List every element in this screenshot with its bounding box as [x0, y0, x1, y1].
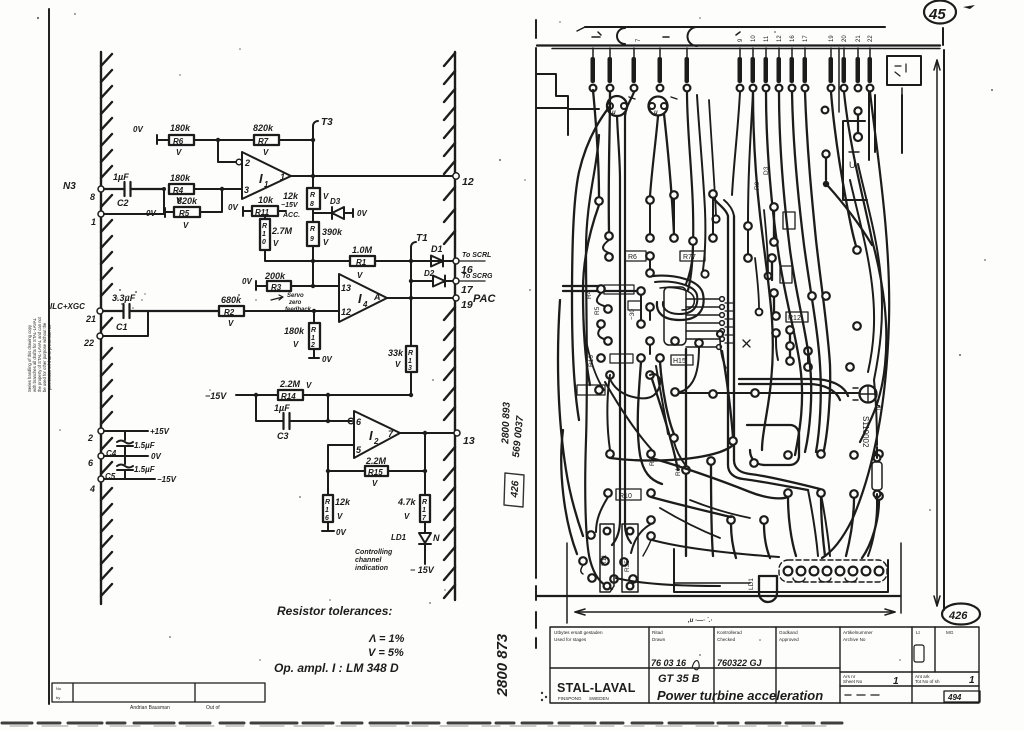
- svg-text:Sheet No: Sheet No: [843, 679, 863, 684]
- wire I1 output to node 12: [291, 175, 455, 177]
- I4 output to node 19: [387, 297, 455, 299]
- svg-text:Godkand: Godkand: [779, 630, 798, 635]
- bottom scan artifact band: [2, 722, 842, 725]
- pads field right: [744, 203, 861, 371]
- wire trace: [697, 95, 705, 270]
- svg-text:Checked: Checked: [717, 637, 736, 642]
- resistor R5: [174, 196, 200, 230]
- big loop trace inner: [655, 282, 697, 314]
- wire R4 to pin3: [194, 188, 242, 190]
- svg-text:C1: C1: [116, 322, 128, 332]
- svg-text:H15: H15: [673, 358, 686, 365]
- svg-text:200k: 200k: [264, 271, 286, 281]
- big loop trace outer: [653, 276, 704, 320]
- op-amp I1: [242, 152, 291, 199]
- svg-text:permission o.f that to prevent: permission o.f that to prevention 19: [47, 324, 52, 390]
- label R6: [625, 251, 646, 261]
- wire trace: [686, 244, 693, 284]
- ground rail right (hatched): [444, 52, 455, 600]
- svg-text:V: V: [395, 360, 401, 369]
- trace to right resistor: [874, 380, 877, 445]
- trace bar5 to hook: [687, 92, 693, 290]
- svg-text:4: 4: [89, 484, 95, 494]
- svg-text:Tot No of sh: Tot No of sh: [915, 679, 940, 684]
- faint rotated numbers above: [500, 401, 526, 458]
- svg-text:1.5µF: 1.5µF: [134, 465, 156, 474]
- pot feed trace: [679, 392, 858, 394]
- svg-text:R9: R9: [754, 181, 761, 190]
- component bar lead stubs: [593, 48, 870, 57]
- op-amp I4: [339, 274, 387, 322]
- dots left of title block: [541, 692, 543, 694]
- svg-text:390k: 390k: [322, 227, 343, 237]
- circled 426: [942, 604, 980, 625]
- wire to op-amp pin2: [218, 140, 236, 162]
- svg-text:760322 GJ: 760322 GJ: [717, 658, 763, 668]
- svg-text:zero: zero: [288, 300, 302, 306]
- svg-text:3.3µF: 3.3µF: [112, 293, 136, 303]
- svg-text:9: 9: [738, 38, 744, 42]
- I2 output to node 13: [400, 432, 455, 434]
- svg-text:channel: channel: [355, 557, 383, 564]
- svg-text:0V: 0V: [228, 203, 238, 212]
- svg-text:S110002: S110002: [861, 416, 870, 448]
- trace from Q2 down: [650, 116, 658, 196]
- svg-text:Λ = 1%: Λ = 1%: [368, 633, 405, 645]
- wire trace: [808, 489, 830, 556]
- resistor R9: [307, 222, 343, 247]
- wire R2 to pin 12: [244, 310, 339, 312]
- svg-text:1: 1: [91, 217, 96, 227]
- strip separator line: [838, 48, 840, 112]
- wire pad pair right: [822, 150, 829, 157]
- highway traces right: [766, 92, 802, 455]
- svg-text:I: I: [358, 291, 362, 306]
- svg-text:R7: R7: [258, 137, 269, 146]
- strip pin numbers: [636, 35, 874, 42]
- node junction: [216, 138, 220, 142]
- svg-text:1: 1: [969, 675, 975, 686]
- diode D3: [313, 207, 353, 219]
- isolated vertical lines right: [869, 92, 902, 160]
- svg-text:Kontrollerad: Kontrollerad: [717, 630, 742, 635]
- svg-text:R: R: [422, 499, 427, 506]
- svg-text:R4: R4: [173, 186, 184, 195]
- svg-text:feedback: feedback: [285, 307, 312, 313]
- svg-text:2800 873: 2800 873: [494, 633, 511, 697]
- svg-text:2: 2: [373, 437, 379, 446]
- horizontal double trace: [563, 286, 636, 291]
- svg-text:Controlling: Controlling: [355, 549, 393, 556]
- svg-text:45: 45: [928, 6, 946, 23]
- svg-text:426: 426: [509, 480, 521, 499]
- svg-text:19: 19: [829, 35, 835, 42]
- resistor R7: [253, 123, 279, 157]
- svg-text:8: 8: [90, 192, 95, 202]
- svg-text:R3: R3: [271, 283, 282, 292]
- twin vertical traces mid: [713, 198, 808, 490]
- small x mark: [743, 340, 750, 347]
- svg-text:D3: D3: [330, 197, 341, 206]
- svg-text:+15V: +15V: [150, 427, 170, 436]
- wire trace: [755, 258, 759, 308]
- svg-text:N3: N3: [63, 181, 76, 192]
- resistor R3: [264, 271, 291, 292]
- svg-text:2: 2: [244, 158, 250, 168]
- R11 tall component: [600, 524, 614, 592]
- svg-text:V: V: [176, 148, 182, 157]
- wire R5 up to input: [200, 189, 222, 212]
- horizontal bus pair to right bundle: [739, 379, 848, 396]
- svg-text:22: 22: [868, 35, 874, 42]
- svg-text:R: R: [310, 192, 315, 199]
- svg-text:1: 1: [262, 231, 266, 238]
- svg-text:V: V: [306, 381, 312, 390]
- svg-text:R6: R6: [628, 254, 637, 261]
- svg-text:Archive No: Archive No: [843, 637, 866, 642]
- svg-text:1: 1: [422, 507, 426, 514]
- left board edge trace: [585, 135, 612, 589]
- left board step outline: [537, 74, 599, 135]
- terminal T3: [313, 121, 318, 140]
- wire trace: [850, 180, 874, 372]
- svg-text:33k: 33k: [388, 348, 404, 358]
- pad: [853, 246, 861, 254]
- lower wavy traces: [610, 445, 733, 460]
- wire trace: [764, 210, 768, 272]
- svg-text:To SCRG: To SCRG: [462, 273, 493, 280]
- svg-text:180k: 180k: [170, 173, 191, 183]
- svg-text:2: 2: [310, 342, 315, 349]
- svg-text:R: R: [262, 223, 267, 230]
- svg-text:12k: 12k: [335, 497, 351, 507]
- trace from box down: [901, 88, 903, 95]
- IC second pad column: [725, 303, 734, 343]
- capacitor C2: [104, 182, 164, 196]
- svg-text:R12: R12: [788, 315, 801, 322]
- svg-text:1.5µF: 1.5µF: [134, 441, 156, 450]
- svg-text:20: 20: [842, 35, 848, 42]
- svg-text:17: 17: [803, 35, 809, 42]
- bottom right number box: [845, 694, 879, 696]
- bottom connector circles: [784, 567, 884, 576]
- node 19: [453, 295, 459, 301]
- svg-text:1.0M: 1.0M: [352, 245, 373, 255]
- svg-text:3: 3: [244, 185, 249, 195]
- pad: [701, 270, 708, 277]
- LD1 D-shape: [759, 576, 777, 602]
- svg-text:2.7M: 2.7M: [271, 226, 293, 236]
- svg-text:1: 1: [408, 358, 412, 365]
- svg-text:13: 13: [341, 283, 351, 293]
- rotated small labels: [586, 166, 770, 476]
- svg-text:1: 1: [280, 172, 285, 182]
- svg-text:76 03 16: 76 03 16: [651, 658, 687, 668]
- svg-text:R16: R16: [588, 355, 595, 367]
- pad: [765, 273, 772, 280]
- svg-text:FINSPONG SWEDEN: FINSPONG SWEDEN: [558, 696, 609, 701]
- transistor Q1 outline: [607, 96, 627, 116]
- wire trace: [831, 92, 856, 246]
- 0V terminal top: [157, 135, 169, 144]
- resistor R12: [284, 323, 320, 349]
- label H15: [671, 355, 693, 365]
- resistor R6: [169, 123, 194, 157]
- node 1 bypass wire: [98, 211, 104, 217]
- svg-text:D3: D3: [763, 166, 770, 175]
- svg-text:Ritad: Ritad: [652, 630, 663, 635]
- svg-text:6: 6: [88, 458, 94, 468]
- svg-text:R14: R14: [281, 392, 296, 401]
- svg-text:,u ·—· ´.·: ,u ·—· ´.·: [687, 618, 712, 624]
- svg-text:Used for stages: Used for stages: [554, 637, 587, 642]
- svg-text:21: 21: [856, 35, 862, 42]
- component bracket C-outline right: [843, 121, 867, 200]
- wire trace: [709, 100, 716, 215]
- wire trace: [685, 349, 687, 466]
- svg-text:0V: 0V: [151, 452, 161, 461]
- svg-text:2.2M: 2.2M: [279, 379, 301, 389]
- LED LD1: [419, 533, 431, 564]
- svg-text:T3: T3: [321, 117, 333, 128]
- node 22 bypass: [97, 333, 103, 339]
- right small resistor component: [872, 462, 882, 490]
- svg-text:10: 10: [751, 35, 757, 42]
- svg-text:R: R: [325, 499, 330, 506]
- svg-text:V: V: [372, 479, 378, 488]
- ground rail left (hatched): [101, 52, 112, 604]
- resistor R4: [169, 173, 194, 205]
- svg-text:Approved: Approved: [779, 637, 799, 642]
- svg-text:No: No: [56, 686, 62, 691]
- potentiometer: [860, 386, 877, 403]
- PCB top edge line: [585, 26, 885, 28]
- svg-text:10k: 10k: [258, 195, 274, 205]
- svg-text:R2: R2: [224, 308, 235, 317]
- svg-text:R: R: [408, 350, 413, 357]
- capacitor C3: [256, 395, 352, 421]
- svg-text:V: V: [404, 512, 410, 521]
- svg-text:7: 7: [636, 38, 642, 42]
- extra drop traces top: [609, 92, 610, 232]
- svg-text:426: 426: [948, 610, 968, 622]
- svg-text:3: 3: [408, 365, 412, 372]
- small component rects right: [783, 212, 795, 229]
- svg-text:V: V: [228, 319, 234, 328]
- svg-text:1µF: 1µF: [274, 403, 290, 413]
- svg-text:R77: R77: [683, 254, 696, 261]
- wire trace: [690, 500, 750, 518]
- vertical wire component inside bracket: [857, 114, 859, 134]
- bottom right loop trace: [747, 425, 799, 465]
- capacitor C4: [124, 431, 126, 456]
- component outline box top right: [887, 56, 921, 85]
- bottom connector dashed outline: [779, 560, 887, 582]
- svg-text:1µF: 1µF: [113, 172, 129, 182]
- svg-text:12: 12: [777, 35, 783, 42]
- svg-text:C2: C2: [117, 198, 129, 208]
- fold line left of PCB: [535, 20, 537, 648]
- pad: [822, 107, 829, 114]
- svg-text:PAC: PAC: [473, 293, 496, 305]
- resistor R15 feedback: [328, 433, 425, 471]
- circled A5 stamp: [924, 1, 956, 24]
- trace hook to pads: [583, 205, 599, 385]
- svg-text:−15V: −15V: [157, 475, 177, 484]
- wire R6 to R7: [194, 139, 254, 141]
- svg-text:V: V: [357, 271, 363, 280]
- svg-text:R5: R5: [179, 209, 190, 218]
- diode D1: [431, 256, 453, 267]
- resistor R17: [424, 471, 426, 533]
- diagonal wire: [828, 186, 872, 245]
- dimension extension lines: [567, 543, 901, 623]
- svg-text:V: V: [183, 221, 189, 230]
- left margin fine print (rotated): [27, 316, 52, 392]
- svg-text:8: 8: [310, 201, 314, 208]
- right vertical dimension arrow: [934, 60, 940, 606]
- small component outline rects left: [604, 285, 634, 294]
- svg-text:2.2M: 2.2M: [365, 456, 387, 466]
- svg-text:21: 21: [85, 314, 96, 324]
- svg-text:4.7k: 4.7k: [397, 497, 417, 507]
- svg-text:LD1: LD1: [748, 578, 755, 590]
- svg-text:indication: indication: [355, 565, 388, 572]
- wire trace: [586, 340, 604, 390]
- strip tick marks: [592, 32, 740, 37]
- svg-text:Out of: Out of: [206, 705, 220, 711]
- svg-text:Power turbine acceleration: Power turbine acceleration: [657, 688, 823, 703]
- svg-text:1: 1: [311, 335, 315, 342]
- wire trace: [680, 347, 699, 392]
- node 4: [98, 476, 104, 482]
- 0V terminal R11: [243, 207, 252, 216]
- svg-text:9: 9: [310, 236, 314, 243]
- svg-text:R11: R11: [255, 208, 270, 217]
- right border line: [943, 50, 945, 610]
- pad: [712, 215, 719, 222]
- header labels row: [554, 630, 954, 684]
- resistor R2: [219, 295, 244, 328]
- big right bulge trace: [844, 92, 886, 442]
- svg-text:V: V: [337, 512, 343, 521]
- svg-text:0: 0: [262, 239, 266, 246]
- svg-text:494: 494: [947, 693, 962, 702]
- svg-text:V: V: [293, 340, 299, 349]
- terminal T1: [411, 242, 416, 346]
- wire trace: [558, 300, 583, 536]
- R35 tall component: [622, 524, 638, 592]
- far right long trace: [822, 92, 889, 558]
- capacitor C5: [124, 456, 126, 479]
- resistor R16: [327, 471, 329, 531]
- wire R11 right -15V ACC: [278, 210, 286, 212]
- svg-text:u: u: [612, 110, 616, 116]
- twin long vertical traces: [625, 92, 634, 543]
- svg-text:0V: 0V: [133, 125, 143, 134]
- svg-text:To SCRL: To SCRL: [462, 252, 491, 259]
- pin 6: [348, 418, 354, 424]
- connector solid outline: [674, 549, 888, 592]
- svg-text:N: N: [433, 533, 440, 543]
- pads under bars: [590, 85, 874, 92]
- connector strip double line: [537, 44, 940, 46]
- bottom-left revision table: [52, 683, 265, 702]
- svg-text:0V: 0V: [336, 528, 346, 537]
- horizontal dimension arrow: [575, 609, 895, 615]
- svg-text:R35: R35: [624, 560, 631, 572]
- pin5 wire: [328, 445, 354, 471]
- 0V terminal R5: [165, 208, 174, 217]
- svg-text:12k: 12k: [283, 191, 299, 201]
- svg-text:ACC.: ACC.: [282, 212, 300, 219]
- svg-text:2: 2: [87, 433, 93, 443]
- svg-text:0V: 0V: [322, 355, 332, 364]
- svg-text:569 0037: 569 0037: [511, 415, 526, 458]
- svg-text:T1: T1: [416, 233, 428, 244]
- resistor R13: [388, 346, 417, 372]
- svg-text:−15V: −15V: [281, 202, 299, 209]
- resistor R8: [283, 188, 329, 209]
- resistor R11: [252, 195, 278, 217]
- svg-text:22: 22: [83, 338, 94, 348]
- svg-text:180k: 180k: [170, 123, 191, 133]
- svg-text:180k: 180k: [284, 326, 305, 336]
- svg-text:Artikelnummer: Artikelnummer: [843, 630, 873, 635]
- svg-text:0V: 0V: [242, 277, 252, 286]
- op-amp I2: [354, 411, 400, 458]
- diode D2: [411, 276, 453, 287]
- wire trace: [660, 508, 720, 538]
- node 2: [98, 428, 104, 434]
- title block frame: [550, 627, 979, 703]
- small arrow right of stamp: [963, 5, 975, 9]
- svg-text:V: V: [263, 148, 269, 157]
- svg-text:6: 6: [325, 515, 329, 522]
- svg-text:C3: C3: [277, 431, 289, 441]
- svg-text:MG: MG: [946, 630, 954, 635]
- svg-text:13: 13: [463, 435, 475, 447]
- node 6: [98, 453, 104, 459]
- svg-text:ILC+XGC: ILC+XGC: [50, 302, 85, 311]
- svg-text:1: 1: [893, 676, 899, 687]
- svg-text:Op. ampl. I : LM 348 D: Op. ampl. I : LM 348 D: [274, 661, 399, 675]
- svg-text:V: V: [323, 238, 329, 247]
- svg-text:680k: 680k: [221, 295, 242, 305]
- diagonal traces mid-left: [652, 379, 678, 470]
- svg-text:−15V: −15V: [205, 391, 227, 401]
- svg-text:V = 5%: V = 5%: [368, 647, 404, 659]
- svg-text:820k: 820k: [253, 123, 274, 133]
- node 12: [453, 173, 459, 179]
- svg-text:17: 17: [461, 284, 474, 296]
- svg-text:I: I: [259, 171, 263, 186]
- svg-text:D1: D1: [431, 244, 443, 254]
- svg-text:R: R: [310, 226, 315, 233]
- svg-text:0V: 0V: [357, 209, 367, 218]
- svg-text:R: R: [311, 327, 316, 334]
- svg-text:Drawn: Drawn: [652, 637, 666, 642]
- svg-text:R6: R6: [173, 137, 184, 146]
- svg-text:V: V: [273, 239, 279, 248]
- capacitor C1: [103, 304, 219, 318]
- transistor Q2 outline: [649, 97, 668, 116]
- IC outline: [664, 287, 686, 345]
- wire R7 to T3 line: [279, 139, 313, 141]
- wire trace: [593, 90, 599, 197]
- svg-text:R5: R5: [594, 306, 601, 315]
- pin 2: [236, 159, 242, 165]
